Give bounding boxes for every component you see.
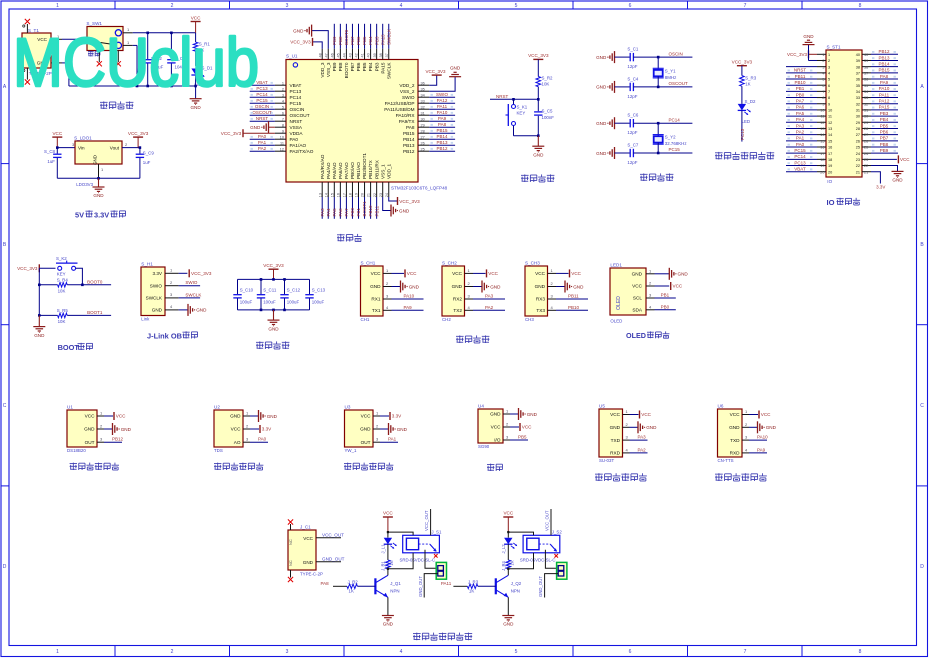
svg-text:PA7/AO: PA7/AO (344, 162, 349, 179)
capacitor S_C3 104 (167, 33, 186, 86)
svg-text:PB9: PB9 (332, 36, 337, 45)
svg-text:OLED: OLED (610, 318, 622, 323)
wire relay common up VCC_OUT J_S2 (545, 509, 551, 535)
svg-text:20: 20 (828, 170, 832, 174)
svg-text:VCC_3V3: VCC_3V3 (290, 40, 311, 45)
svg-text:41: 41 (361, 53, 365, 57)
svg-text:PA8: PA8 (321, 581, 330, 586)
svg-text:OSCIN: OSCIN (255, 104, 269, 109)
wire relay coil bottom to collector J_S2 (507, 553, 533, 570)
switch S_SW1 (86, 21, 123, 50)
svg-text:PB2/BOOT1: PB2/BOOT1 (362, 153, 367, 179)
svg-text:J_Q2: J_Q2 (511, 581, 522, 586)
svg-text:OLED: OLED (626, 331, 646, 340)
chip U1 left pin 2 PC13 (250, 86, 302, 94)
svg-text:18: 18 (828, 158, 832, 162)
svg-text:14: 14 (820, 133, 824, 137)
header S_ST1 right pin 39 (856, 55, 898, 63)
svg-text:25: 25 (864, 146, 868, 150)
svg-text:AO: AO (234, 440, 241, 445)
resistor S_R1 1K (193, 33, 210, 66)
svg-text:PB11/RX: PB11/RX (374, 159, 379, 179)
svg-text:22: 22 (864, 164, 868, 168)
svg-text:2: 2 (171, 649, 174, 655)
module U5 SU-03T body (599, 404, 623, 464)
watermark MCUclub logo (13, 24, 259, 101)
svg-text:31: 31 (856, 109, 860, 113)
key S_K2 (56, 256, 78, 277)
power VCC_3V3 at U1 pin 36 VDD_2 (425, 69, 446, 85)
svg-text:PA11: PA11 (437, 104, 448, 109)
transistor J_Q1 NPN (375, 569, 401, 616)
svg-text:VCC: VCC (452, 271, 463, 276)
svg-text:PA15: PA15 (380, 62, 385, 74)
svg-text:PA3: PA3 (796, 123, 805, 128)
svg-text:J-Link OB: J-Link OB (147, 332, 182, 341)
svg-text:6: 6 (282, 111, 284, 115)
svg-text:8: 8 (282, 123, 284, 127)
svg-text:GND: GND (293, 28, 304, 33)
svg-text:TDS: TDS (214, 448, 223, 453)
svg-text:VCC: VCC (191, 15, 201, 20)
svg-text:PB9: PB9 (332, 62, 337, 71)
svg-text:GND: GND (503, 622, 514, 627)
svg-text:VCC: VCC (730, 412, 741, 417)
svg-text:VDD_1: VDD_1 (386, 163, 391, 179)
svg-text:GND: GND (490, 284, 501, 289)
svg-text:J_R3: J_R3 (468, 580, 479, 585)
svg-text:VCC_OUT: VCC_OUT (424, 510, 429, 531)
svg-text:29: 29 (421, 123, 425, 127)
svg-text:PB14: PB14 (878, 61, 890, 66)
title 程序运行指示灯 (715, 152, 774, 160)
svg-text:PC15: PC15 (290, 101, 302, 106)
svg-text:15: 15 (330, 193, 334, 197)
chip U1 right pin 31 PA10/RX (396, 110, 456, 118)
svg-text:C: C (3, 403, 7, 409)
svg-text:PB11: PB11 (795, 74, 806, 79)
header S_ST1 right pin 27 (856, 129, 898, 137)
module S_CH2 CH2 body (442, 261, 465, 323)
svg-text:GND: GND (250, 125, 261, 130)
title 语音识别模块 (595, 473, 647, 481)
title 5V转3.3V电路 (75, 210, 126, 219)
J-Link pin 1 VCC_3V3 (165, 268, 212, 278)
svg-text:J_R1: J_R1 (380, 560, 385, 570)
svg-text:40: 40 (856, 53, 860, 57)
svg-text:19: 19 (355, 193, 359, 197)
svg-text:10: 10 (820, 109, 824, 113)
svg-text:VBAT: VBAT (290, 83, 302, 88)
svg-text:20: 20 (361, 193, 365, 197)
svg-text:D: D (3, 564, 7, 570)
module U2 TDS body (214, 405, 243, 454)
module U5 pin 3 TXD (611, 435, 648, 443)
power VCC relay J_S2 (503, 511, 514, 533)
svg-text:40: 40 (864, 53, 868, 57)
svg-text:S_D2: S_D2 (745, 99, 757, 104)
svg-text:PA10/RX: PA10/RX (396, 113, 416, 118)
svg-text:PA10: PA10 (757, 435, 768, 440)
header S_ST1 right pin 35 (856, 80, 898, 88)
svg-text:26: 26 (421, 141, 425, 145)
svg-text:PB10: PB10 (568, 305, 580, 310)
module S_CH3 CH3 body (525, 261, 548, 323)
wire LED to PC13 (740, 110, 745, 141)
terminal block J_S2 (538, 550, 567, 598)
svg-text:GND: GND (490, 412, 501, 417)
module S_CH1 pin 1 VCC (371, 268, 418, 278)
power VCC_3V3 reset (528, 53, 549, 59)
svg-text:10K: 10K (58, 319, 66, 324)
svg-text:18: 18 (820, 158, 824, 162)
svg-text:TYPE-C-2P: TYPE-C-2P (300, 572, 323, 577)
svg-text:S_CH2: S_CH2 (442, 261, 457, 266)
header S_ST1 left pin 5 (786, 74, 830, 82)
svg-text:VCC: VCC (535, 271, 546, 276)
J-Link pin 3 SWCLK (165, 292, 201, 298)
capacitor S_C7 12pF row PC15 (596, 142, 692, 165)
svg-text:S_C1: S_C1 (627, 47, 639, 52)
svg-text:1: 1 (56, 3, 59, 9)
svg-text:VCC: VCC (407, 271, 417, 276)
svg-text:PB7: PB7 (350, 62, 355, 71)
svg-text:25: 25 (421, 147, 425, 151)
svg-text:OSCOUT: OSCOUT (252, 110, 272, 115)
svg-text:VSS_2: VSS_2 (400, 89, 415, 94)
svg-text:PA8: PA8 (406, 125, 415, 130)
wire key bottom to ground (514, 134, 540, 137)
svg-text:PC13: PC13 (290, 89, 302, 94)
svg-text:PA9/TX: PA9/TX (399, 119, 416, 124)
title 水质检测模块 (214, 463, 263, 470)
transistor J_Q2 NPN (496, 569, 522, 616)
capacitor S_C9 1uF (136, 148, 155, 179)
svg-text:S_C10: S_C10 (240, 287, 254, 292)
svg-text:1K: 1K (469, 589, 474, 594)
wire LDO GND to rail (57, 164, 140, 180)
svg-text:CN-TTS: CN-TTS (718, 458, 734, 463)
wire R2 to NRST node (537, 87, 540, 101)
svg-text:48: 48 (318, 53, 322, 57)
svg-text:39: 39 (856, 59, 860, 63)
svg-text:7: 7 (744, 3, 747, 9)
svg-text:D: D (920, 564, 924, 570)
header S_ST1 left pin 4 (786, 68, 830, 76)
wire T1 GND down to bottom rail (51, 57, 69, 86)
svg-text:NC: NC (288, 539, 293, 545)
svg-text:13: 13 (820, 127, 824, 131)
module U4 pin 3 I/O (494, 435, 528, 443)
svg-text:PA7: PA7 (796, 99, 805, 104)
wire relay coil top J_S2 (507, 531, 533, 535)
svg-text:PC13: PC13 (740, 128, 745, 140)
svg-text:2: 2 (822, 59, 824, 63)
J-Link pin 2 SWIO (165, 280, 200, 286)
ground at U1 pin 8 VSSA (250, 121, 275, 133)
svg-text:VCC_3V3: VCC_3V3 (732, 59, 753, 64)
svg-text:NRST: NRST (496, 94, 509, 99)
svg-text:YW_1: YW_1 (345, 448, 358, 453)
svg-text:PA11: PA11 (879, 92, 890, 97)
title 串口电路 (456, 335, 489, 343)
power VCC_3V3 filter (263, 263, 284, 279)
chip U1 bottom pin 14 PA4/AO (324, 162, 331, 219)
svg-text:PA5/AO: PA5/AO (332, 162, 337, 179)
svg-text:S_Y2: S_Y2 (665, 135, 676, 140)
J-Link pin 4 GND (165, 304, 207, 316)
svg-text:3: 3 (286, 649, 289, 655)
svg-text:PA3: PA3 (638, 435, 647, 440)
svg-text:S_ST1: S_ST1 (827, 45, 841, 50)
svg-text:PB7: PB7 (350, 36, 355, 45)
module S_CH1 pin 4 TX1 (372, 305, 424, 313)
svg-text:PB3: PB3 (880, 111, 889, 116)
OLED pin 4 SDA (646, 304, 676, 310)
svg-text:GND: GND (399, 208, 410, 213)
svg-text:PB9: PB9 (880, 148, 889, 153)
svg-text:PB6: PB6 (356, 62, 361, 71)
svg-text:36: 36 (421, 81, 425, 85)
module U2 pin 1 GND (230, 410, 278, 422)
no-connect pin bottom of S_T1 (23, 68, 30, 85)
svg-text:GND: GND (450, 66, 461, 71)
svg-text:S_C5: S_C5 (542, 109, 554, 114)
svg-text:17: 17 (343, 193, 347, 197)
svg-text:GND: GND (370, 284, 381, 289)
svg-text:VCC_3V3: VCC_3V3 (128, 131, 149, 136)
svg-text:27: 27 (864, 133, 868, 137)
chip U1 left pin 4 PC15 (250, 98, 302, 106)
header S_ST1 left pin 3 (786, 65, 830, 69)
module U4 pin 1 GND (490, 408, 538, 420)
capacitor S_C10 100uF (233, 279, 253, 310)
svg-text:3.3V: 3.3V (94, 211, 109, 220)
svg-text:PA8: PA8 (880, 74, 889, 79)
svg-text:GND: GND (610, 425, 621, 430)
chip U1 top pin 47 VSS_3 (324, 49, 331, 77)
svg-text:U6: U6 (718, 404, 724, 409)
svg-text:8: 8 (828, 96, 830, 100)
module U2 pin 3 AO (234, 437, 268, 445)
svg-text:DS18B20: DS18B20 (67, 448, 86, 453)
svg-text:S_CH1: S_CH1 (361, 261, 376, 266)
header S_ST1 right pin 32 (856, 99, 898, 107)
wire SW1 pin2 down to bottom rail (123, 40, 137, 86)
svg-text:Vin: Vin (78, 146, 85, 151)
svg-text:LDO3V3: LDO3V3 (76, 182, 93, 187)
svg-text:40: 40 (367, 53, 371, 57)
header S_ST1 right pin 40 (856, 49, 898, 57)
power VCC (191, 15, 202, 33)
svg-text:12pF: 12pF (627, 160, 637, 165)
module U1 DS18B20 body (67, 405, 97, 454)
svg-text:PA2: PA2 (258, 146, 267, 151)
svg-text:18: 18 (349, 193, 353, 197)
title 晶振电路 (640, 173, 673, 181)
svg-text:S_C9: S_C9 (143, 151, 155, 156)
svg-text:16: 16 (828, 146, 832, 150)
capacitor S_C5 100nF (534, 99, 554, 135)
svg-text:S_C12: S_C12 (287, 287, 301, 292)
capacitor S_C11 100uF (257, 279, 277, 310)
svg-text:VSSA: VSSA (290, 125, 303, 130)
svg-text:25: 25 (856, 146, 860, 150)
title 复位电路 (521, 174, 554, 182)
chip U1 bottom pin 19 PB1/AO (355, 162, 362, 219)
svg-text:PA1/AO: PA1/AO (290, 143, 307, 148)
ground above header (803, 34, 815, 44)
svg-text:47: 47 (324, 53, 328, 57)
ground right of header (892, 171, 904, 182)
crystal S_Y2 32.768KHz (653, 123, 687, 153)
svg-text:CH3: CH3 (525, 317, 534, 322)
svg-text:1uF: 1uF (143, 160, 151, 165)
chip U1 right pin 33 PA12/USB/DP (385, 98, 455, 106)
svg-text:J_S1: J_S1 (431, 530, 442, 535)
svg-text:PB12: PB12 (436, 146, 448, 151)
svg-text:RX2: RX2 (453, 297, 463, 302)
svg-text:GND: GND (729, 425, 740, 430)
svg-text:GND: GND (303, 560, 314, 565)
svg-text:PA9: PA9 (880, 80, 889, 85)
svg-text:35: 35 (856, 84, 860, 88)
svg-text:PB14: PB14 (403, 137, 415, 142)
svg-text:PB10/TX: PB10/TX (368, 159, 373, 179)
svg-text:37: 37 (864, 71, 868, 75)
svg-text:PB8: PB8 (338, 36, 343, 45)
svg-text:CH2: CH2 (442, 317, 451, 322)
chip U1 right pin 26 PB13 (403, 140, 455, 148)
svg-text:BOOT0: BOOT0 (87, 279, 103, 284)
header S_ST1 right pin 24 (856, 148, 898, 156)
svg-text:S_R5: S_R5 (57, 308, 69, 313)
svg-text:3.3V: 3.3V (153, 271, 163, 276)
svg-text:VBAT: VBAT (794, 167, 806, 172)
svg-text:LED: LED (742, 119, 751, 124)
chip U1 right pin 35 VSS_2 (400, 87, 429, 94)
svg-text:4: 4 (828, 71, 830, 75)
svg-text:S_R3: S_R3 (745, 76, 757, 81)
wire T1 VCC to SW1 (51, 34, 87, 40)
svg-text:PB0/AO: PB0/AO (350, 162, 355, 179)
svg-text:VCC: VCC (900, 157, 910, 162)
chip U1 left pin 3 PC14 (250, 92, 302, 100)
LED S_D1 (191, 66, 213, 99)
svg-text:11: 11 (280, 141, 284, 145)
svg-text:VCC: VCC (632, 284, 643, 289)
svg-text:PA3/RX/AO: PA3/RX/AO (320, 154, 325, 179)
svg-text:RX3: RX3 (536, 297, 546, 302)
chip U1 bottom pin 20 PB2/BOOT1 (361, 153, 368, 219)
net label NRST wire (490, 94, 538, 101)
svg-text:VCC: VCC (231, 427, 242, 432)
svg-text:PA6: PA6 (338, 208, 343, 217)
svg-text:PB4: PB4 (880, 117, 889, 122)
chip U1 left pin 11 PA1/AO (250, 140, 307, 148)
module U3 pin 2 GND (360, 423, 408, 435)
svg-text:17: 17 (828, 152, 832, 156)
svg-text:PA9: PA9 (404, 305, 413, 310)
ground reset (532, 136, 544, 158)
svg-text:24: 24 (385, 193, 389, 197)
power VCC_3V3 at U1 pin 24 VDD_1 (389, 197, 420, 205)
svg-text:GND_OUT: GND_OUT (322, 556, 345, 561)
module U4 SG90 body (478, 404, 503, 450)
wire VCC to R2 (537, 59, 539, 76)
svg-text:S_LDO1: S_LDO1 (74, 136, 92, 141)
power VCC_3V3 boot (17, 264, 55, 272)
svg-text:21: 21 (856, 170, 860, 174)
svg-text:36: 36 (856, 78, 860, 82)
title 继电器控制电路 (413, 633, 472, 641)
OLED pin 1 GND (646, 268, 688, 280)
svg-text:PB1: PB1 (796, 86, 805, 91)
svg-text:VCC: VCC (371, 271, 382, 276)
svg-text:J_R2: J_R2 (348, 580, 359, 585)
svg-text:GND: GND (596, 55, 607, 60)
svg-text:TXD: TXD (730, 438, 740, 443)
chip U1 bottom pin 16 PA6/AO (336, 162, 343, 219)
svg-text:VCC: VCC (522, 425, 532, 430)
svg-text:100uF: 100uF (287, 300, 300, 305)
chip U1 left pin 5 OSCIN (250, 104, 305, 112)
svg-text:S_CH3: S_CH3 (525, 261, 540, 266)
power VCC_3V3 indicator (732, 59, 753, 65)
svg-text:100uF: 100uF (240, 300, 253, 305)
power VCC at LDO (52, 131, 63, 148)
header S_ST1 right pin 25 (856, 142, 898, 150)
svg-text:SWCLK: SWCLK (386, 62, 391, 80)
header S_ST1 left pin 14 (786, 129, 832, 137)
wire J_C1 VCC_OUT (316, 533, 344, 538)
svg-text:OUT: OUT (85, 440, 95, 445)
svg-text:28: 28 (864, 127, 868, 131)
svg-text:GND: GND (527, 412, 538, 417)
capacitor S_C1 12pF row OSCIN (596, 47, 692, 70)
header S_ST1 right pin 28 (856, 123, 898, 131)
svg-text:NPN: NPN (511, 588, 520, 593)
module S_CH1 CH1 body (361, 261, 384, 323)
svg-text:Vout: Vout (110, 146, 120, 151)
svg-text:VCC_3V3: VCC_3V3 (399, 199, 420, 204)
svg-text:PA2: PA2 (796, 129, 805, 134)
svg-text:45: 45 (336, 53, 340, 57)
svg-text:GND: GND (121, 427, 132, 432)
svg-text:19: 19 (828, 164, 832, 168)
ground boot (33, 315, 45, 337)
svg-text:SWIO: SWIO (150, 284, 163, 289)
svg-text:PA1: PA1 (796, 136, 805, 141)
title OLED显示屏 (626, 331, 669, 340)
ground at U1 pin 23 VSS_1 (383, 197, 410, 217)
svg-text:PA11/USB/DM: PA11/USB/DM (384, 107, 414, 112)
svg-text:VCC: VCC (85, 414, 96, 419)
svg-text:32.768KHz: 32.768KHz (665, 141, 687, 146)
terminal block J_S1 (418, 550, 447, 598)
svg-text:J_Q1: J_Q1 (390, 581, 401, 586)
svg-text:3: 3 (828, 65, 830, 69)
svg-text:U2: U2 (214, 405, 220, 410)
svg-text:PB1: PB1 (661, 293, 670, 298)
svg-text:TX3: TX3 (536, 308, 545, 313)
svg-text:24: 24 (864, 152, 868, 156)
svg-text:PA15: PA15 (879, 105, 890, 110)
module S_CH2 pin 1 VCC (452, 268, 499, 278)
svg-text:BOOT1: BOOT1 (87, 310, 103, 315)
svg-text:PA1: PA1 (388, 437, 397, 442)
chip U1 right pin 30 PA9/TX (399, 116, 455, 124)
